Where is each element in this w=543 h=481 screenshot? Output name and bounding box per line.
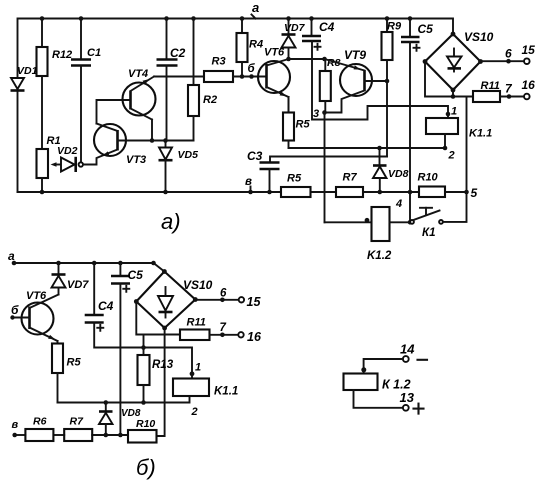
capacitor C4 (85, 261, 114, 331)
wire left column below VD1 (17, 90, 19, 192)
svg-text:C3: C3 (247, 149, 263, 163)
svg-text:R10: R10 (418, 172, 439, 184)
pin 4 label (395, 198, 402, 210)
svg-text:К1: К1 (422, 227, 435, 239)
wire coil to terminal 13 (354, 390, 403, 408)
wire VT9 base down to R5/pin2 row (386, 81, 388, 157)
svg-text:14: 14 (400, 342, 415, 357)
svg-text:а: а (252, 0, 259, 15)
svg-text:K1.1: K1.1 (469, 128, 492, 140)
wire R5 bottom / K1.1 pin2 row (289, 146, 446, 151)
svg-text:б: б (11, 303, 19, 317)
svg-text:VT3: VT3 (126, 154, 146, 166)
svg-text:VD7: VD7 (284, 22, 306, 34)
svg-text:VT6: VT6 (26, 290, 47, 302)
wire VT6 collector row to R8/VT9 emitter (286, 57, 327, 62)
diode VD1 (11, 65, 38, 91)
svg-text:K1.1: K1.1 (214, 386, 238, 398)
svg-text:C4: C4 (98, 299, 114, 313)
svg-text:VD8: VD8 (388, 168, 409, 180)
node в terminal (12, 419, 19, 437)
capacitor C4 (302, 16, 335, 50)
wire VT3 collector to VT4 base (97, 100, 131, 124)
wire bottom rail в (18, 191, 467, 193)
diode VD2 (57, 145, 78, 172)
resistor R13 (138, 348, 174, 405)
resistor R4 (237, 16, 264, 79)
svg-text:VD1: VD1 (17, 65, 38, 77)
svg-text:15: 15 (522, 43, 536, 57)
svg-text:б): б) (136, 455, 156, 480)
wire VT4 emitter down to base node (150, 120, 155, 143)
svg-text:4: 4 (395, 198, 402, 210)
svg-text:R6: R6 (33, 416, 47, 428)
resistor R12 (37, 16, 73, 76)
svg-text:R2: R2 (203, 94, 217, 106)
svg-text:VD7: VD7 (67, 279, 89, 291)
node а (top rail label) (252, 0, 260, 19)
svg-text:б: б (248, 63, 256, 75)
terminal 16 (505, 78, 535, 99)
node б (248, 63, 256, 79)
wire VS10 left corner to R11 (136, 302, 180, 335)
wire C5 bottom to в rail (118, 284, 123, 438)
wire output 6 / terminal 15 (481, 43, 536, 64)
svg-text:R13: R13 (152, 359, 174, 371)
svg-text:C2: C2 (170, 46, 186, 60)
wire VT4 collector row to rail (154, 16, 204, 76)
svg-text:16: 16 (522, 78, 536, 92)
transistor VT3 (94, 124, 146, 167)
pin 2 label (191, 406, 198, 418)
node б terminal (10, 303, 29, 320)
capacitor C3 (247, 149, 387, 194)
svg-text:R5: R5 (296, 119, 311, 131)
wire node3 down to relay K1.2 (324, 113, 326, 223)
bridge rectifier VS10 (423, 30, 494, 92)
svg-text:R10: R10 (136, 418, 155, 430)
wire rail а (14, 261, 164, 272)
svg-text:6: 6 (505, 47, 512, 61)
resistor R1 (potentiometer) (37, 135, 61, 194)
switch K1 (410, 192, 466, 239)
svg-text:2: 2 (191, 406, 198, 418)
transistor VT6 (22, 290, 59, 341)
svg-text:R7: R7 (70, 416, 85, 428)
resistor R2 (188, 77, 217, 141)
svg-text:3: 3 (313, 108, 319, 120)
svg-text:6: 6 (220, 288, 227, 300)
resistor R11 (180, 317, 238, 341)
resistor R5 (emitter resistor) (283, 97, 310, 148)
svg-text:13: 13 (400, 390, 415, 405)
bridge rectifier VS10 (134, 269, 213, 330)
wire C4 bottom staircase to K1.1 pin1 (312, 41, 448, 120)
wire VS10 bottom corner down to R10 (157, 328, 165, 436)
resistor R5 (52, 341, 81, 403)
resistor R11 (473, 80, 524, 102)
diode VD8 (99, 400, 141, 437)
wire C4 bottom to K1.1 pin1 (94, 323, 194, 379)
wire VS10 minus row (425, 62, 473, 99)
terminal 16 (220, 322, 262, 344)
wire minus row down to node 5 (466, 97, 468, 193)
wire R12 to R1 (41, 76, 43, 149)
capacitor C5 (111, 261, 143, 292)
R1 wiper arrow (51, 162, 62, 167)
svg-text:VS10: VS10 (464, 30, 494, 44)
node 3 (313, 108, 327, 120)
terminal 13 (400, 390, 424, 414)
node в (label on bottom rail) (245, 176, 253, 194)
transistor VT9 (325, 48, 390, 96)
pin 2 label (448, 150, 455, 162)
capacitor C2 (157, 16, 186, 140)
wire link to R13 top (141, 335, 146, 350)
svg-text:7: 7 (220, 322, 227, 334)
svg-text:C4: C4 (319, 20, 335, 34)
transistor VT6 (258, 47, 290, 113)
caption а) (161, 209, 181, 234)
resistor R5 (series in rail) (281, 173, 311, 198)
diode VD5 (159, 141, 199, 195)
capacitor C1 (71, 16, 101, 162)
svg-text:R9: R9 (387, 21, 402, 33)
svg-text:R7: R7 (343, 172, 358, 184)
node 5 (464, 186, 477, 200)
resistor R9 (382, 16, 402, 81)
relay coil K1.2 (325, 207, 411, 262)
svg-text:2: 2 (448, 150, 455, 162)
wire terminal 14 to coil (361, 359, 403, 374)
svg-text:1: 1 (195, 362, 201, 374)
wire output 6 / terminal 15 (195, 288, 261, 310)
resistor R10 (418, 172, 446, 198)
caption б) (136, 455, 156, 480)
svg-text:R4: R4 (249, 39, 263, 51)
diode VD7 (282, 16, 306, 59)
wire C5 bottom to rail and K1.2 pin4 (408, 42, 413, 225)
resistor R6 (25, 416, 53, 442)
relay coil K1.1 (173, 379, 238, 398)
svg-text:C1: C1 (87, 47, 101, 59)
relay coil K1.1 (426, 112, 492, 151)
transistor VT4 (123, 68, 156, 120)
wire VT3 base row (118, 138, 194, 143)
pin 1 label (451, 106, 457, 118)
wire VT9 collector to node 3 (325, 91, 365, 113)
wire в rail (15, 434, 128, 436)
wire top rail а (18, 19, 454, 79)
svg-text:VS10: VS10 (183, 278, 213, 292)
diode VD8 (373, 148, 409, 194)
svg-text:C5: C5 (418, 22, 434, 36)
svg-text:K1.2: K1.2 (367, 250, 392, 262)
diode VD7 (52, 261, 90, 295)
svg-text:в: в (12, 419, 19, 431)
svg-text:R5: R5 (287, 173, 302, 185)
svg-text:VD5: VD5 (178, 149, 199, 161)
svg-text:1: 1 (451, 106, 457, 118)
svg-text:R11: R11 (187, 317, 206, 329)
svg-text:R12: R12 (52, 49, 72, 61)
resistor R7 (336, 172, 363, 198)
wire VD8 row (R5 bottom to K1.1 pin2) (58, 396, 190, 403)
svg-text:VD2: VD2 (57, 145, 78, 157)
resistor R3 (204, 56, 267, 83)
svg-text:R11: R11 (481, 80, 500, 92)
node а terminal (8, 249, 16, 265)
svg-text:C5: C5 (128, 268, 144, 282)
svg-text:5: 5 (471, 186, 478, 200)
svg-text:16: 16 (247, 330, 262, 344)
resistor R7 (64, 416, 92, 442)
wire VD2 node to VT3 emitter (83, 150, 118, 165)
terminal 14 (400, 342, 427, 362)
resistor R8 (320, 57, 341, 113)
svg-text:VT9: VT9 (344, 48, 366, 62)
relay coil K1.2 (344, 374, 411, 392)
svg-text:R3: R3 (212, 56, 226, 68)
capacitor C5 (401, 16, 433, 51)
node junction circle (VD2 cathode / C1) (79, 162, 83, 166)
resistor R10 (128, 418, 157, 443)
svg-text:15: 15 (247, 295, 262, 309)
svg-text:а): а) (161, 209, 181, 234)
svg-text:VT4: VT4 (128, 68, 148, 80)
pin 1 label (195, 362, 201, 374)
svg-text:R5: R5 (67, 357, 82, 369)
